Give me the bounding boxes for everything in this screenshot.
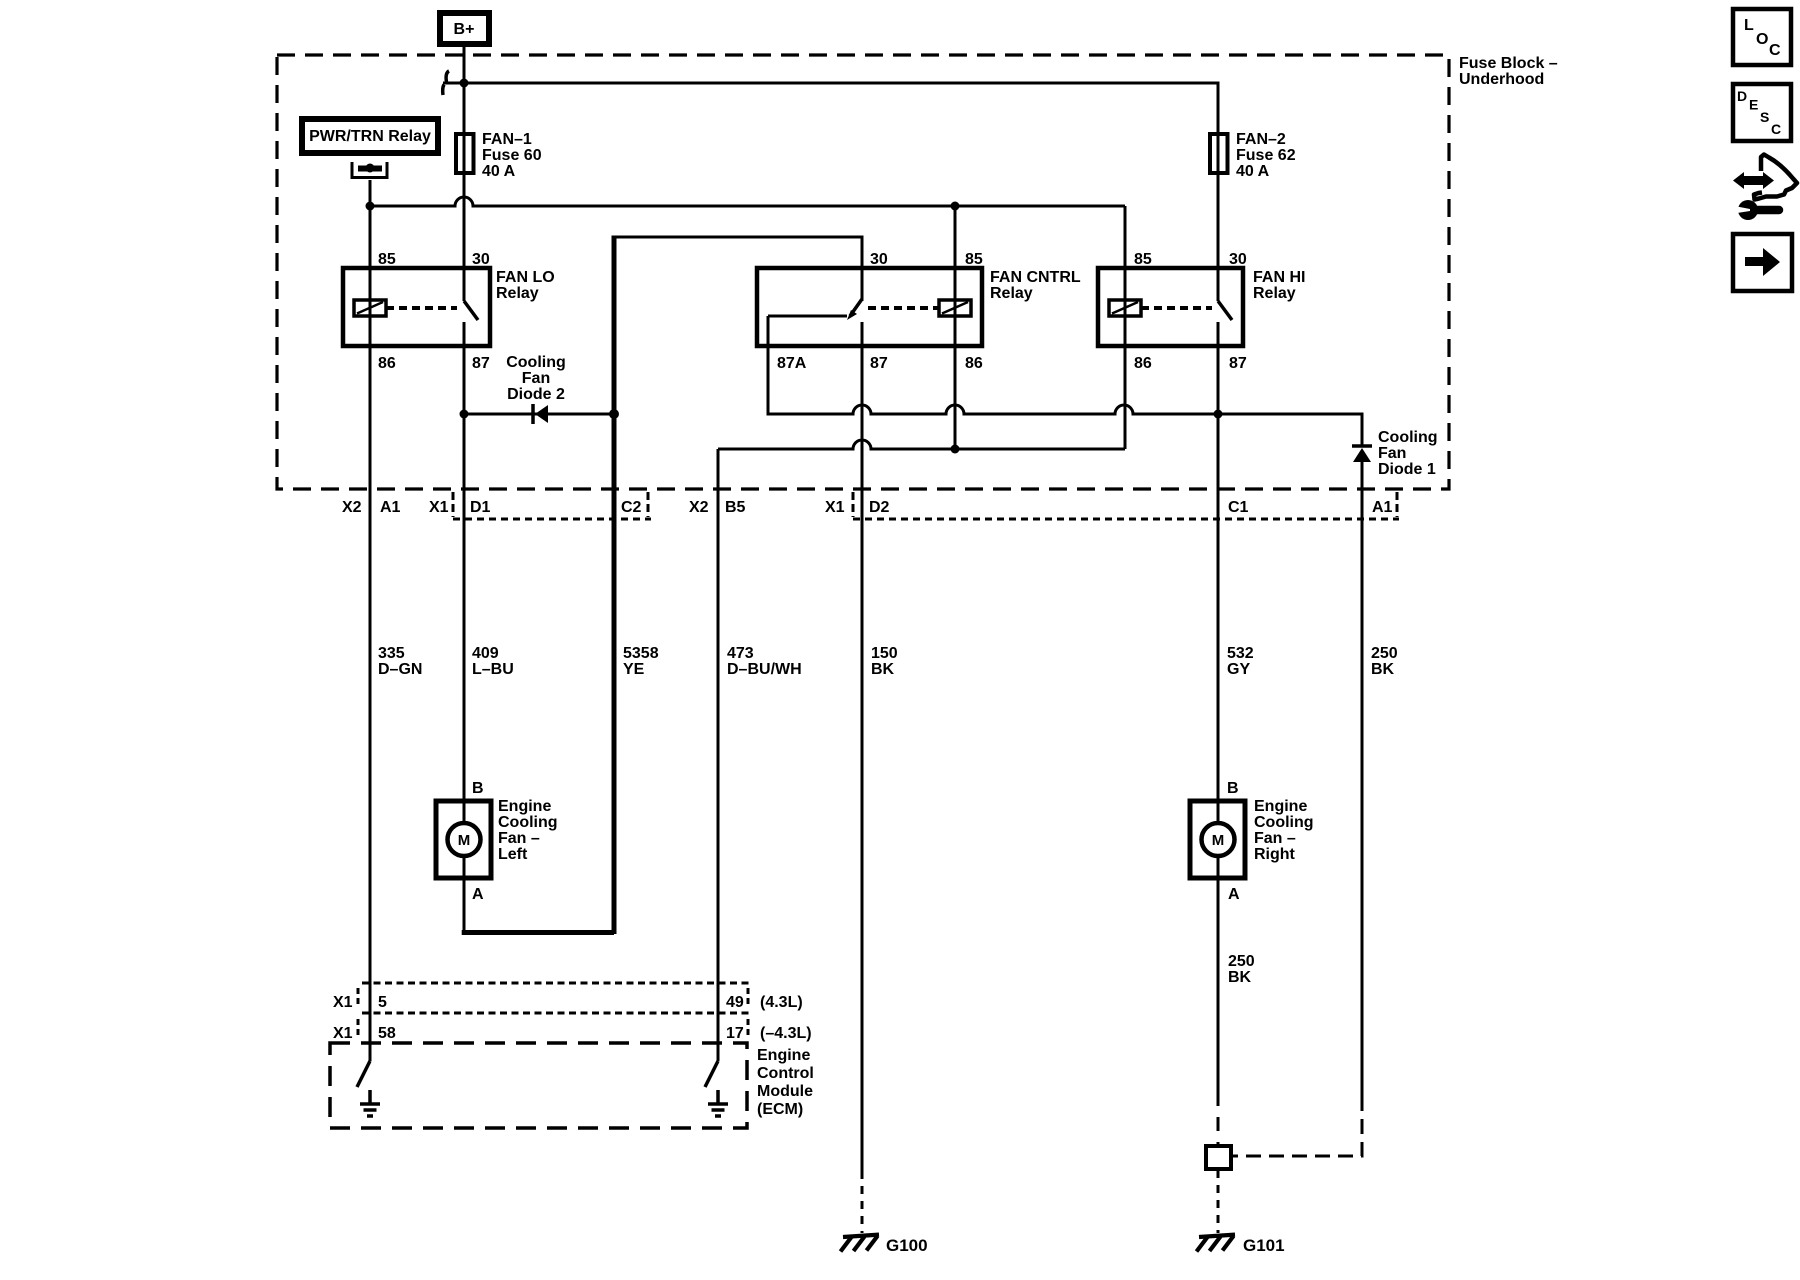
svg-text:X1: X1: [825, 499, 845, 516]
svg-text:G101: G101: [1243, 1236, 1285, 1255]
svg-text:Cooling: Cooling: [506, 354, 566, 371]
svg-text:Right: Right: [1254, 846, 1296, 863]
svg-text:87A: 87A: [777, 355, 807, 372]
svg-text:86: 86: [965, 355, 983, 372]
svg-text:A: A: [1228, 886, 1240, 903]
svg-text:L–BU: L–BU: [472, 661, 514, 678]
svg-text:86: 86: [1134, 355, 1152, 372]
svg-text:D–GN: D–GN: [378, 661, 422, 678]
svg-text:BK: BK: [1371, 661, 1395, 678]
svg-text:GY: GY: [1227, 661, 1250, 678]
svg-text:X2: X2: [342, 499, 362, 516]
svg-text:X1: X1: [333, 1025, 353, 1042]
svg-text:250: 250: [1228, 953, 1255, 970]
svg-text:C2: C2: [621, 499, 642, 516]
svg-text:85: 85: [965, 251, 983, 268]
svg-text:Fan –: Fan –: [1254, 830, 1296, 847]
svg-text:Fan –: Fan –: [498, 830, 540, 847]
svg-text:B: B: [472, 780, 484, 797]
svg-text:PWR/TRN Relay: PWR/TRN Relay: [309, 128, 431, 145]
svg-text:58: 58: [378, 1025, 396, 1042]
svg-text:49: 49: [726, 994, 744, 1011]
svg-text:C1: C1: [1228, 499, 1249, 516]
svg-text:(4.3L): (4.3L): [760, 994, 803, 1011]
svg-text:Engine: Engine: [757, 1047, 810, 1064]
svg-text:Fuse 62: Fuse 62: [1236, 147, 1296, 164]
svg-text:85: 85: [1134, 251, 1152, 268]
svg-text:FAN–1: FAN–1: [482, 131, 532, 148]
svg-text:A: A: [472, 886, 484, 903]
svg-text:FAN HI: FAN HI: [1253, 269, 1305, 286]
svg-text:Underhood: Underhood: [1459, 71, 1544, 88]
svg-text:87: 87: [1229, 355, 1247, 372]
svg-text:250: 250: [1371, 645, 1398, 662]
svg-text:Relay: Relay: [1253, 285, 1296, 302]
svg-text:G100: G100: [886, 1236, 928, 1255]
svg-text:30: 30: [472, 251, 490, 268]
svg-text:A1: A1: [380, 499, 401, 516]
svg-text:Cooling: Cooling: [1378, 429, 1438, 446]
svg-text:335: 335: [378, 645, 405, 662]
svg-text:YE: YE: [623, 661, 645, 678]
svg-text:Control: Control: [757, 1065, 814, 1082]
svg-text:(ECM): (ECM): [757, 1101, 803, 1118]
svg-text:409: 409: [472, 645, 499, 662]
svg-text:D: D: [1737, 88, 1747, 104]
svg-text:532: 532: [1227, 645, 1254, 662]
svg-text:FAN LO: FAN LO: [496, 269, 555, 286]
svg-text:BK: BK: [1228, 969, 1252, 986]
svg-text:M: M: [458, 832, 471, 849]
svg-text:FAN CNTRL: FAN CNTRL: [990, 269, 1081, 286]
svg-text:E: E: [1749, 97, 1758, 113]
svg-text:Fan: Fan: [1378, 445, 1406, 462]
svg-text:40 A: 40 A: [482, 163, 516, 180]
svg-text:5: 5: [378, 994, 387, 1011]
svg-text:X1: X1: [429, 499, 449, 516]
svg-text:Engine: Engine: [498, 798, 551, 815]
svg-text:X1: X1: [333, 994, 353, 1011]
svg-text:C: C: [1769, 42, 1781, 59]
svg-text:86: 86: [378, 355, 396, 372]
svg-text:Fuse 60: Fuse 60: [482, 147, 542, 164]
svg-text:C: C: [1771, 121, 1781, 137]
svg-text:30: 30: [1229, 251, 1247, 268]
svg-text:Left: Left: [498, 846, 528, 863]
svg-text:85: 85: [378, 251, 396, 268]
svg-text:Relay: Relay: [496, 285, 539, 302]
svg-text:Cooling: Cooling: [498, 814, 558, 831]
svg-text:S: S: [1760, 109, 1769, 125]
svg-text:Diode 2: Diode 2: [507, 386, 565, 403]
svg-text:87: 87: [472, 355, 490, 372]
svg-text:Fan: Fan: [522, 370, 550, 387]
svg-text:B+: B+: [454, 21, 475, 38]
svg-text:Cooling: Cooling: [1254, 814, 1314, 831]
svg-text:D1: D1: [470, 499, 491, 516]
svg-text:D2: D2: [869, 499, 890, 516]
svg-text:150: 150: [871, 645, 898, 662]
svg-text:A1: A1: [1372, 499, 1393, 516]
svg-text:5358: 5358: [623, 645, 659, 662]
svg-text:Module: Module: [757, 1083, 813, 1100]
svg-text:Diode 1: Diode 1: [1378, 461, 1436, 478]
svg-text:30: 30: [870, 251, 888, 268]
svg-text:X2: X2: [689, 499, 709, 516]
svg-text:473: 473: [727, 645, 754, 662]
svg-text:FAN–2: FAN–2: [1236, 131, 1286, 148]
svg-text:Engine: Engine: [1254, 798, 1307, 815]
svg-text:O: O: [1756, 31, 1768, 48]
svg-text:(–4.3L): (–4.3L): [760, 1025, 812, 1042]
svg-text:D–BU/WH: D–BU/WH: [727, 661, 802, 678]
svg-text:B5: B5: [725, 499, 746, 516]
svg-text:17: 17: [726, 1025, 744, 1042]
svg-text:40 A: 40 A: [1236, 163, 1270, 180]
svg-text:L: L: [1744, 17, 1754, 34]
svg-text:Fuse Block –: Fuse Block –: [1459, 55, 1558, 72]
svg-text:BK: BK: [871, 661, 895, 678]
svg-text:B: B: [1227, 780, 1239, 797]
svg-text:87: 87: [870, 355, 888, 372]
svg-text:Relay: Relay: [990, 285, 1033, 302]
svg-text:M: M: [1212, 832, 1225, 849]
